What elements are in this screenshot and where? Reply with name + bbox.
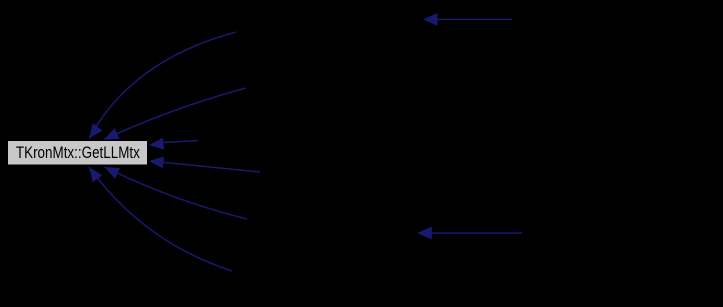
edge F curve from caller node 6 to GetLLMtx bbox=[89, 167, 232, 271]
arrowhead H bbox=[417, 227, 432, 240]
edge B curve from caller node 2 to GetLLMtx bbox=[104, 88, 246, 140]
arrowhead B bbox=[104, 128, 120, 140]
edge A curve from caller node 1 to GetLLMtx bbox=[89, 32, 236, 139]
edge E curve from caller node 5 to GetLLMtx bbox=[105, 167, 248, 219]
edge H horizontal arrow lower right bbox=[432, 232, 522, 234]
arrowhead D bbox=[149, 157, 164, 169]
arrowhead G bbox=[423, 13, 438, 26]
arrowhead C bbox=[149, 138, 164, 150]
arrowhead F bbox=[89, 167, 102, 182]
svg-text:TKronMtx::GetLLMtx: TKronMtx::GetLLMtx bbox=[16, 143, 140, 162]
arrowhead E bbox=[105, 167, 121, 179]
edge D line from caller node 4 to GetLLMtx bbox=[163, 162, 260, 172]
node TKronMtx::GetLLMtx bbox=[8, 141, 148, 166]
arrowhead A bbox=[89, 123, 103, 138]
edge G horizontal arrow upper right bbox=[438, 18, 513, 20]
edge C line from caller node 3 to GetLLMtx bbox=[163, 141, 198, 143]
